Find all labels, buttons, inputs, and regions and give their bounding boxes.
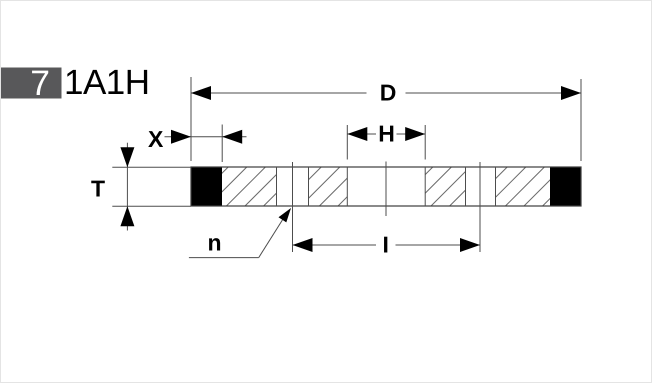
bore centerline <box>385 162 387 217</box>
svg-text:1A1H: 1A1H <box>64 63 150 102</box>
svg-text:H: H <box>378 121 395 147</box>
hole openings (white) <box>277 167 495 207</box>
svg-text:n: n <box>208 230 222 256</box>
svg-text:T: T <box>91 176 105 202</box>
dimension T <box>91 143 191 231</box>
type number box <box>1 68 62 99</box>
dimension D <box>191 77 581 161</box>
svg-text:D: D <box>380 80 397 106</box>
right hole centerline <box>479 162 481 252</box>
svg-text:I: I <box>383 232 389 258</box>
dimension I <box>293 232 481 258</box>
bore hole edges <box>346 167 348 206</box>
svg-text:X: X <box>148 126 164 152</box>
svg-text:7: 7 <box>30 63 50 103</box>
left abrasive segment (black) <box>191 167 222 206</box>
right abrasive segment (black) <box>550 167 581 206</box>
wheel body hatching <box>191 167 581 206</box>
label n with leader <box>189 208 291 258</box>
dimension X <box>148 125 247 163</box>
right hole edges <box>465 167 467 206</box>
left hole edges <box>276 167 278 206</box>
wheel body outline <box>191 167 581 206</box>
left hole centerline <box>292 162 294 252</box>
dimension H <box>347 121 425 160</box>
